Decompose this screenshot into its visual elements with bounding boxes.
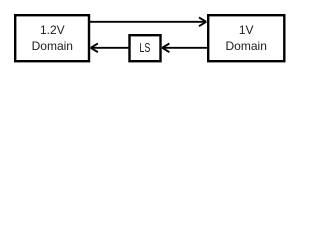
- svg-text:1V: 1V: [239, 23, 254, 37]
- svg-text:LS: LS: [139, 40, 150, 55]
- block U2: 1V Domain: [208, 15, 284, 61]
- wire: top arrow, 1.2V Domain to 1V Domain: [90, 17, 206, 26]
- svg-text:Domain: Domain: [32, 39, 73, 53]
- block U1: 1.2V Domain: [15, 15, 89, 61]
- wire: bottom arrow, 1V Domain to LS: [162, 43, 207, 52]
- wire: bottom arrow, LS to 1.2V Domain: [91, 43, 130, 52]
- svg-text:1.2V: 1.2V: [40, 23, 65, 37]
- svg-text:Domain: Domain: [226, 39, 267, 53]
- block U3: LS (level shifter): [130, 35, 161, 61]
